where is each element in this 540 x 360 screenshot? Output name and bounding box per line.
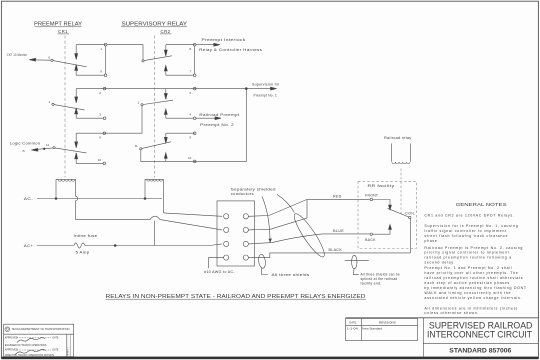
svg-text:TEXAS DEPARTMENT OF TRANSPORTA: TEXAS DEPARTMENT OF TRANSPORTATION (12, 328, 70, 331)
junction fuse output (114, 245, 116, 247)
svg-text:Logic Common: Logic Common (10, 142, 41, 146)
svg-text:Supervision for is Preempt No.: Supervision for is Preempt No. 1, causin… (424, 224, 518, 228)
svg-text:CR1 and CR2 are 120VAC DPDT Re: CR1 and CR2 are 120VAC DPDT Relays. (424, 214, 514, 218)
wire AC+ riser (153, 221, 155, 246)
contact CR1-C (75, 132, 106, 165)
coil CR2 (145, 179, 164, 213)
blade CR1-C (31, 147, 86, 153)
wire preempt interlock (196, 44, 215, 46)
wire supervision rail (row2 top) (76, 88, 271, 90)
svg-text:CR2: CR2 (161, 29, 171, 34)
svg-text:Railroad relay: Railroad relay (384, 136, 412, 140)
svg-text:Preempt No. 1 and Preempt No.: Preempt No. 1 and Preempt No. 2 shall (424, 266, 512, 270)
svg-text:AC-: AC- (24, 197, 34, 201)
coil railroad relay (392, 144, 411, 164)
svg-text:REVISIONS: REVISIONS (379, 321, 396, 325)
svg-text:DATE: DATE (53, 349, 59, 352)
svg-text:RED: RED (333, 195, 342, 199)
revisions table (346, 319, 418, 341)
svg-text:CR1: CR1 (58, 29, 68, 34)
mechanical linkage dashed (400, 169, 402, 214)
svg-text:street flash following track c: street flash following track clearance (424, 234, 508, 238)
svg-text:Supervision for: Supervision for (252, 83, 280, 87)
svg-text:FRONT: FRONT (365, 193, 378, 197)
main title block (423, 318, 538, 357)
svg-text:5 Amp: 5 Amp (76, 251, 90, 255)
svg-text:#10 AWG to AC-: #10 AWG to AC- (204, 270, 235, 274)
svg-text:Railroad Preempt: Railroad Preempt (199, 113, 239, 117)
blade railroad relay (388, 208, 411, 253)
wire leader to cable (262, 197, 270, 240)
wire CR2-C bottom rail to supervision junction (141, 90, 247, 162)
svg-text:unless otherwise shown.: unless otherwise shown. (424, 311, 479, 315)
TITLE_BLOCKS (4, 318, 538, 357)
svg-text:10: 10 (98, 158, 102, 162)
svg-text:second delay.: second delay. (424, 261, 455, 265)
blade CR1-A (29, 58, 86, 67)
wire row4 to AC- drop (209, 258, 224, 269)
svg-text:DIRECTOR, TRAFFIC OPERATIONS D: DIRECTOR, TRAFFIC OPERATIONS DIVISION (5, 354, 54, 357)
wire CR2 coil to terminal row1 (164, 213, 223, 216)
svg-text:AC+: AC+ (24, 244, 34, 248)
svg-text:STANDARD 857006: STANDARD 857006 (449, 348, 512, 355)
blade CR2-A (142, 56, 172, 62)
svg-text:All three shields can be: All three shields can be (361, 273, 401, 277)
wire railroad preempt (196, 117, 216, 119)
svg-text:↓5: ↓5 (22, 149, 26, 153)
wire AC- bus (37, 198, 162, 200)
svg-text:phase.: phase. (424, 239, 439, 243)
header PREEMPT RELAY (34, 21, 83, 33)
shield oval left (258, 254, 266, 269)
svg-text:1-1-04: 1-1-04 (347, 327, 359, 331)
contact CR1-B (75, 87, 106, 119)
wire AC+ bus (37, 245, 74, 247)
svg-text:Inline fuse: Inline fuse (74, 234, 98, 238)
svg-text:DATE: DATE (53, 336, 59, 339)
svg-text:CKT 10 Monitor: CKT 10 Monitor (7, 53, 28, 57)
svg-text:Separately shielded: Separately shielded (231, 187, 276, 191)
svg-text:Railroad Preempt is Preempt No: Railroad Preempt is Preempt No. 2, causi… (424, 246, 523, 250)
header SUPERVISORY RELAY (122, 21, 188, 33)
contact CR2-A rectangle wires (164, 43, 196, 76)
wire CR1-C top to CR2-B pivot (76, 106, 142, 133)
shield drain stub (345, 260, 369, 262)
svg-text:DATE: DATE (349, 321, 356, 325)
wire CR1 coil to terminal row2 with hop (76, 216, 223, 230)
RR_FACILITY (358, 136, 416, 253)
svg-text:COIL: COIL (405, 212, 415, 216)
fuse F1 (74, 243, 85, 248)
relay CR1 dashed line (64, 36, 66, 178)
junction CR2 coil to AC- (144, 198, 146, 200)
svg-text:RR facility: RR facility (368, 184, 395, 188)
svg-text:GENERAL NOTES: GENERAL NOTES (456, 202, 507, 207)
svg-text:BLUE: BLUE (333, 229, 345, 233)
svg-text:10: 10 (188, 156, 192, 160)
svg-text:railroad preemption routine fo: railroad preemption routine following a (424, 256, 511, 260)
contact CR2-C (164, 132, 196, 163)
svg-text:associated vehicle yellow chan: associated vehicle yellow change interva… (424, 296, 522, 300)
svg-text:have priority over all other p: have priority over all other preempts. T… (424, 271, 518, 275)
wire conductor red (248, 199, 370, 216)
svg-text:All dimensions are in millimet: All dimensions are in millimeters (inche… (424, 306, 518, 310)
svg-text:Preempt No. 2: Preempt No. 2 (200, 123, 234, 127)
svg-text:New Standard: New Standard (362, 327, 383, 331)
terminal block TB1 (217, 201, 255, 266)
svg-text:APPROVED: APPROVED (5, 349, 18, 352)
shield cable oval (290, 211, 328, 260)
svg-text:BLACK: BLACK (329, 248, 343, 252)
svg-text:PREEMPT RELAY: PREEMPT RELAY (34, 21, 83, 27)
shield oval right (352, 255, 357, 268)
svg-text:each step of active pedestrian: each step of active pedestrian phases (424, 281, 510, 285)
contact railroad relay front (370, 198, 391, 235)
node All three shields label (262, 268, 269, 274)
blade CR2-B (141, 100, 173, 106)
svg-text:SHEET 1: SHEET 1 (67, 347, 69, 356)
junction CR1 coil to AC- (55, 198, 57, 200)
MAIN_SCHEMATIC (7, 21, 280, 254)
svg-text:11: 11 (46, 143, 49, 147)
txdot approval block (4, 324, 74, 357)
contact CR2-B (164, 87, 196, 119)
contact CR1-A rectangle wires (75, 43, 107, 76)
svg-text:railroad preemption routine sh: railroad preemption routine shall abbrev… (424, 276, 523, 280)
svg-text:BACK: BACK (365, 238, 376, 242)
svg-text:SUPERVISORY RELAY: SUPERVISORY RELAY (122, 21, 188, 27)
TERMINAL_AND_CABLE (204, 187, 411, 285)
svg-text:INTERCONNECT CIRCUIT: INTERCONNECT CIRCUIT (427, 330, 532, 340)
svg-text:priority signal controller to: priority signal controller to implement (424, 251, 509, 255)
svg-text:APPROVED: APPROVED (5, 336, 18, 339)
svg-text:ENGINEER OF TRAFFIC OPERATIONS: ENGINEER OF TRAFFIC OPERATIONS (5, 344, 47, 347)
wire CR1-A to CR2-A pivot (107, 45, 143, 60)
relay CR2 dashed line (153, 36, 155, 178)
svg-text:traffic signal controller to i: traffic signal controller to implement (424, 229, 506, 233)
svg-text:Preempt No. 1: Preempt No. 1 (254, 94, 278, 98)
wire conductor black (248, 253, 410, 258)
NOTES_AND_CAPTION (106, 202, 527, 315)
svg-text:Preempt Interlock: Preempt Interlock (202, 38, 246, 42)
svg-text:conductors: conductors (231, 192, 254, 196)
svg-text:spliced at the railroad: spliced at the railroad (361, 277, 398, 281)
svg-text:facility end.: facility end. (361, 282, 382, 286)
RR facility dashed box (358, 181, 416, 248)
wire conductor blue (248, 234, 370, 244)
svg-text:WALK and timing concurrently w: WALK and timing concurrently with the (424, 291, 511, 295)
node shields note label (354, 269, 359, 275)
svg-text:All three shields: All three shields (272, 273, 310, 277)
blade CR1-B (52, 103, 85, 110)
coil CR1 (56, 179, 78, 219)
svg-text:Relay & Controller Harness: Relay & Controller Harness (199, 48, 262, 52)
svg-text:by immediately advancing thru: by immediately advancing thru flashing D… (424, 286, 526, 290)
blade CR2-C (140, 142, 171, 150)
svg-text:11: 11 (135, 144, 138, 148)
wire conductor red branch (248, 200, 307, 230)
